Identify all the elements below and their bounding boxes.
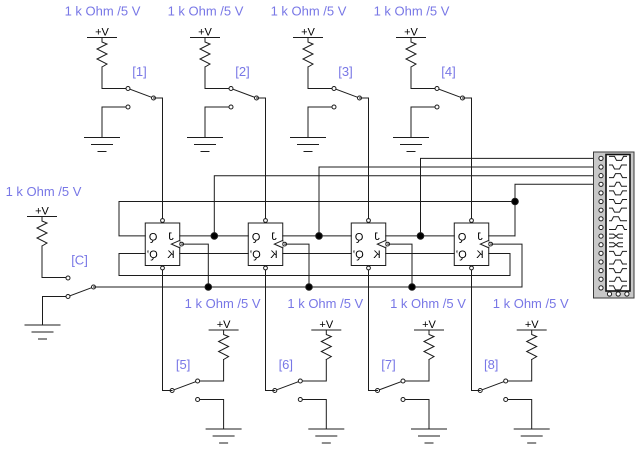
junction clock bus at FF2 [306,284,313,291]
wire FF2 K input to FF3 Q-bar output [283,253,352,255]
svg-text:[8]: [8] [484,357,498,372]
display waveform trace 14 [610,269,627,273]
resistor R6 1k pull-up with +V supply [312,319,341,360]
display pin 14 [599,268,603,272]
display waveform trace 6 [610,200,627,204]
display pin 15 [599,277,603,281]
display waveform trace 15 [610,277,627,281]
resistor R8 1k pull-up with +V supply [517,319,546,360]
display waveform trace 7 [610,208,627,212]
wire resistor R3 bottom to switch [3] upper throw [308,67,334,89]
junction node Q1 [512,198,519,205]
display waveform trace 16 [610,286,627,290]
wire switch [5] lower throw to ground [198,400,224,430]
display waveform trace 8 [610,217,627,221]
display bottom pin 2 [616,292,620,296]
wire node Q1 riser to display input 4 [515,184,598,236]
svg-text:[C]: [C] [71,253,88,268]
junction clock bus at FF1 [205,284,212,291]
svg-text:[1]: [1] [132,64,146,79]
wire switch [7] common up to FF3 clear pin [369,270,378,390]
display pin 12 [599,251,603,255]
wire switch [8] lower throw to ground [506,400,532,430]
display waveform trace 10 [610,234,623,238]
switch [6] SPDT [273,379,303,402]
wire clock bus from switch [C] common to FF4 clock [94,286,523,288]
svg-text:1 k Ohm /5 V: 1 k Ohm /5 V [6,184,82,199]
svg-text:[2]: [2] [235,64,249,79]
svg-text:1 k Ohm /5 V: 1 k Ohm /5 V [287,296,363,311]
switch [C] SPDT (clock) [66,276,96,299]
svg-text:1 k Ohm /5 V: 1 k Ohm /5 V [493,296,569,311]
wire FF1 K input to FF2 Q-bar output [180,253,249,255]
JK flip-flop U1 [145,219,183,270]
display waveform trace 2 [610,165,627,169]
switch [5] SPDT [170,379,200,402]
wire FF3 K input to FF4 Q-bar output [386,253,455,255]
ground symbol for switch [1] [85,138,120,152]
display waveform trace 1 [610,156,627,160]
wire resistor RC bottom to switch [C] upper throw [42,246,68,278]
display pin 2 [599,165,603,169]
wire switch [6] lower throw to ground [300,400,326,430]
wire switch [5] common up to FF1 clear pin [163,270,173,390]
display bottom pin 1 [607,292,611,296]
ground symbol for switch [7] [412,429,447,443]
wire switch [8] common up to FF4 clear pin [472,270,481,390]
svg-text:[5]: [5] [176,357,190,372]
display pin 7 [599,208,603,212]
JK flip-flop U4 [454,219,492,270]
display bottom pin 3 [625,292,629,296]
wire resistor R1 bottom to switch [1] upper throw [102,67,128,89]
ground symbol for switch [6] [309,429,344,443]
wire resistor R6 bottom to switch [6] upper throw [300,360,326,382]
resistor R1 1k pull-up with +V supply [88,27,117,68]
wire resistor R7 bottom to switch [7] upper throw [403,360,429,382]
ground symbol for switch [C] [25,325,60,339]
wire FF3 J input to FF4 Q output [386,235,455,237]
display pin 3 [599,174,603,178]
wire switch [3] lower throw to ground [308,107,334,138]
junction node Q2 [211,233,218,240]
junction node Q3 [316,233,323,240]
svg-text:[6]: [6] [279,357,293,372]
ground symbol for switch [2] [188,138,223,152]
wire switch [2] lower throw to ground [205,107,231,138]
display pin 5 [599,191,603,195]
switch [3] SPDT [332,87,362,110]
wire switch [4] common down to FF4 preset pin [463,98,472,219]
switch [1] SPDT [126,87,156,110]
resistor RC 1k pull-up with +V supply (clock) [28,206,57,247]
wire FF2 clock input to clock bus [285,244,309,287]
wire switch [6] common up to FF2 clear pin [266,270,275,390]
switch [7] SPDT [376,379,406,402]
wire resistor R5 bottom to switch [5] upper throw [198,360,224,382]
display pin 13 [599,260,603,264]
logic analyzer display U5 [594,152,635,298]
wire switch [1] common down to FF1 preset pin [154,98,163,219]
wire resistor R4 bottom to switch [4] upper throw [411,67,437,89]
ground symbol for switch [3] [291,138,326,152]
wire FF4 clock input to clock bus [491,244,522,287]
display pin 11 [599,243,603,247]
wire switch [3] common down to FF3 preset pin [360,98,369,219]
wire FF1 J input to FF2 Q output [180,235,249,237]
JK flip-flop U3 [351,219,389,270]
display waveform trace 4 [610,182,627,186]
svg-text:1 k Ohm /5 V: 1 k Ohm /5 V [390,296,466,311]
wire FF3 clock input to clock bus [388,244,412,287]
display pin 6 [599,199,603,203]
wire FF1 Q-bar output feedback bus to FF4 K [119,254,510,276]
display waveform trace 9 [610,225,627,229]
display waveform trace 13 [610,260,627,264]
display waveform trace 12 [610,251,627,255]
switch [8] SPDT [478,379,508,402]
wire switch [C] lower throw to ground [43,297,69,326]
display pin 1 [599,156,603,160]
wire FF2 J input to FF3 Q output [283,235,352,237]
switch [2] SPDT [229,87,259,110]
wire FF4 J input from node Q1 [489,235,515,237]
switch [4] SPDT [435,87,465,110]
resistor R4 1k pull-up with +V supply [397,27,426,68]
svg-text:1 k Ohm /5 V: 1 k Ohm /5 V [185,296,261,311]
wire switch [4] lower throw to ground [411,107,437,138]
wire switch [7] lower throw to ground [403,400,429,430]
display pin 16 [599,286,603,290]
svg-text:1 k Ohm /5 V: 1 k Ohm /5 V [65,4,141,19]
junction clock bus at FF3 [409,284,416,291]
svg-text:[4]: [4] [441,64,455,79]
ground symbol for switch [5] [206,429,241,443]
display waveform trace 11 [610,243,623,247]
display pin 10 [599,234,603,238]
resistor R2 1k pull-up with +V supply [191,27,220,68]
svg-text:1 k Ohm /5 V: 1 k Ohm /5 V [271,4,347,19]
svg-text:[7]: [7] [381,357,395,372]
resistor R5 1k pull-up with +V supply [209,319,238,360]
wire FF1 Q output feedback bus (node Q1) [119,202,515,236]
junction node Q4 [417,233,424,240]
wire resistor R2 bottom to switch [2] upper throw [205,67,231,89]
svg-text:1 k Ohm /5 V: 1 k Ohm /5 V [374,4,450,19]
wire node Q2 riser to display input 3 [214,176,597,236]
wire FF1 clock input to clock bus [182,244,209,287]
wire switch [2] common down to FF2 preset pin [257,98,266,219]
svg-text:[3]: [3] [338,64,352,79]
JK flip-flop U2 [248,219,286,270]
svg-text:1 k Ohm /5 V: 1 k Ohm /5 V [168,4,244,19]
display waveform trace 5 [610,191,627,195]
resistor R7 1k pull-up with +V supply [415,319,444,360]
display pin 8 [599,217,603,221]
wire switch [1] lower throw to ground [102,107,128,138]
display pin 9 [599,225,603,229]
wire node Q3 riser to display input 2 [319,167,598,236]
display pin 4 [599,182,603,186]
ground symbol for switch [4] [394,138,429,152]
wire node Q4 riser to display input 1 [421,158,598,236]
display waveform trace 3 [610,174,627,178]
wire resistor R8 bottom to switch [8] upper throw [506,360,532,382]
resistor R3 1k pull-up with +V supply [294,27,323,68]
ground symbol for switch [8] [514,429,549,443]
